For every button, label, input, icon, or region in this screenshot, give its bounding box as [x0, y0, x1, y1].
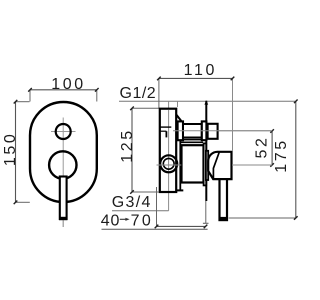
125 extension bottom	[132, 191, 159, 193]
tick right 40-70	[204, 225, 208, 229]
mounting bracket line 1	[160, 126, 172, 128]
diverter button (front)	[56, 124, 71, 139]
body bottom step	[176, 189, 183, 191]
svg-text:G3/4: G3/4	[112, 194, 152, 211]
dimension 150 extension line top	[16, 101, 30, 103]
dimension line 150	[15, 102, 17, 203]
G1/2 thread flange (right)	[202, 121, 207, 140]
plate centerline re-draw inside plate	[168, 110, 170, 191]
knob centerline / 52 lower extension	[157, 164, 273, 166]
110 extension left	[158, 78, 160, 108]
mounting bracket line 2	[160, 130, 167, 132]
handle lever (side)	[208, 152, 231, 179]
dimension 150 extension line bottom	[16, 201, 30, 203]
110 extension right	[232, 78, 234, 150]
cartridge right bar	[204, 143, 207, 185]
svg-text:175: 175	[273, 138, 290, 173]
175 bottom extension	[229, 217, 296, 219]
wall plate (side view)	[160, 109, 176, 192]
G1/2 pipe end cap	[208, 124, 218, 139]
tick top of 150	[14, 100, 18, 104]
underline dimension line B	[102, 228, 208, 230]
125 extension top	[132, 107, 159, 109]
svg-text:G1/2: G1/2	[120, 85, 157, 102]
tick bottom of 125	[130, 190, 134, 194]
svg-text:110: 110	[184, 62, 217, 79]
centerline vertical through knobs	[62, 118, 64, 228]
G1/2 pipe body	[183, 124, 202, 139]
tick left of 100	[28, 88, 32, 92]
handle hub bar	[206, 151, 208, 180]
dimension line 125	[131, 108, 133, 192]
tick right of 100	[95, 88, 99, 92]
pipe centerline overlay	[173, 130, 272, 132]
pipe inner lower line	[184, 136, 201, 138]
tick right of 110	[231, 77, 235, 81]
G3/4 leader line	[112, 210, 169, 212]
knob centerline overlay left	[157, 164, 182, 166]
centerline horizontal through diverter button	[51, 131, 76, 133]
40-70 dimension line	[157, 225, 206, 227]
body step under pipe	[179, 141, 181, 191]
thin continuation below to 40-70 line	[205, 201, 207, 224]
short drop line at plate front	[177, 101, 179, 107]
handle rod end cap (side)	[219, 217, 228, 220]
handle rod (front)	[60, 177, 67, 220]
svg-text:70: 70	[131, 212, 154, 229]
rod centerline below	[62, 220, 64, 227]
pipe-end vertical reference (thick)	[205, 101, 207, 201]
bottom dash tick	[203, 222, 209, 224]
knob centerline overlay right	[232, 164, 272, 166]
tick bottom of 175	[294, 216, 298, 220]
svg-text:52: 52	[254, 136, 271, 159]
body top edge below pipe	[180, 141, 203, 143]
arrowhead at top of pipe-end reference	[204, 100, 208, 104]
handle base circle (front)	[49, 151, 76, 178]
diverter knob (side) outer	[160, 155, 177, 172]
pipe centerline	[173, 130, 272, 132]
tick bottom of 150	[14, 201, 18, 205]
tick bottom of 52	[270, 163, 274, 167]
svg-text:125: 125	[119, 128, 136, 163]
handle rod (side)	[220, 179, 228, 220]
40-70 left extension	[156, 187, 158, 226]
handle rod end cap	[59, 217, 67, 220]
dimension line 100	[30, 89, 97, 91]
svg-text:40: 40	[101, 212, 120, 229]
chamfer plate to pipe	[176, 115, 181, 122]
oval wall plate (front view)	[30, 102, 97, 202]
dimension line 110	[159, 77, 233, 79]
dimension line 52	[271, 131, 273, 165]
dimension 100 extension line right	[96, 90, 98, 101]
dimension 100 extension line left	[29, 90, 31, 101]
tick left of 110	[157, 77, 161, 81]
tick top of 125	[130, 107, 134, 111]
mounting bracket hook	[165, 131, 167, 137]
cartridge housing	[182, 145, 204, 182]
svg-text:100: 100	[51, 76, 86, 93]
plate centerline vertical	[168, 101, 170, 210]
svg-text:150: 150	[2, 132, 19, 167]
dimension line 175	[295, 101, 297, 218]
lever crease line	[213, 152, 219, 179]
diverter knob (side) inner	[163, 158, 174, 169]
G1/2 thread flange (left washer)	[178, 121, 183, 140]
reference leader line under G1/2 across top	[119, 100, 296, 102]
tick top of 52	[270, 129, 274, 133]
arrow between 40 and 70	[120, 218, 128, 220]
tick left 40-70	[155, 225, 159, 229]
tick top of 175	[294, 100, 298, 104]
